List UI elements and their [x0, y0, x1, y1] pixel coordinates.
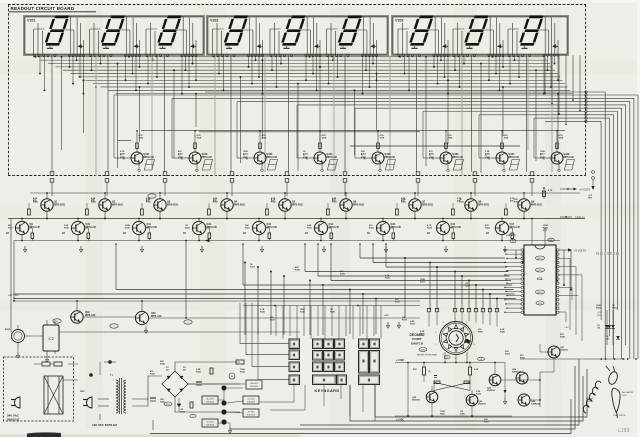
svg-text:2N2369: 2N2369 — [412, 400, 420, 402]
decimal point arrow digit 8 — [497, 44, 503, 48]
svg-text:WHT: WHT — [80, 391, 85, 393]
svg-text:4.7K: 4.7K — [548, 189, 553, 192]
svg-text:-12 VDC: -12 VDC — [247, 412, 255, 414]
voltage source box -12 — [243, 409, 259, 417]
svg-text:47K: 47K — [361, 156, 365, 159]
segment indicator glyph at Q103 — [267, 160, 277, 171]
transistor Q5 — [266, 192, 304, 219]
svg-text:CORD: CORD — [586, 401, 592, 403]
test point oval 7 — [110, 324, 118, 328]
wire bottom nest — [150, 359, 587, 434]
segment indicator glyph at Q101 — [144, 160, 154, 171]
svg-text:BR3000B: BR3000B — [596, 251, 620, 256]
misc ovals — [148, 194, 192, 324]
IC1 integrated circuit — [521, 245, 559, 315]
transistor Q14 — [305, 219, 340, 242]
svg-text:SW1: SW1 — [421, 349, 427, 351]
diodes on right verticals — [597, 325, 620, 340]
svg-text:B101: B101 — [5, 329, 11, 331]
ground symbol under Q13 — [260, 246, 263, 252]
decimal point switch label — [409, 333, 437, 357]
transformer T1 — [98, 373, 126, 414]
transistor Q2 — [86, 192, 124, 219]
svg-text:MPS-6521: MPS-6521 — [353, 203, 365, 206]
flip-flop resistors — [413, 362, 479, 384]
diode column right — [597, 310, 615, 345]
transistor Q20 — [135, 300, 162, 325]
svg-text:READOUT CIRCUIT BOARD: READOUT CIRCUIT BOARD — [11, 6, 75, 11]
svg-text:2N2369: 2N2369 — [478, 404, 486, 406]
7-segment display V101 digit 2 — [100, 16, 126, 46]
common cathode bar digit 1 — [47, 46, 53, 48]
svg-text:150K: 150K — [262, 137, 267, 139]
wire long verticals digit commons — [52, 55, 527, 172]
7-segment display V101 digit 1 — [44, 16, 70, 46]
svg-text:+12 VDC: +12 VDC — [506, 234, 516, 237]
transistor Q16 — [427, 219, 462, 242]
svg-text:1K: 1K — [62, 232, 65, 235]
AC plug 240V — [11, 397, 20, 408]
IC1 right pin L wires — [559, 258, 582, 341]
flip-flop cross wires — [434, 382, 470, 391]
svg-text:1K: 1K — [486, 232, 489, 235]
switch bottom wires — [444, 352, 468, 363]
svg-text:47K: 47K — [485, 156, 489, 159]
IC1 right wires and +5V — [559, 248, 586, 329]
svg-text:MPS-U45: MPS-U45 — [86, 226, 97, 229]
transistor Q25 — [512, 369, 528, 384]
wire mid horizontals — [118, 130, 565, 146]
wire rail y193 — [30, 192, 580, 194]
common cathode bar digit 8 — [467, 46, 473, 48]
svg-text:+3 VOLTS: +3 VOLTS — [579, 189, 590, 192]
KEYBOARD label — [315, 389, 340, 393]
rail y359 right — [555, 358, 637, 360]
alligator clip — [606, 366, 619, 385]
svg-text:+12 VDC: +12 VDC — [247, 399, 255, 401]
svg-text:SOURCE: SOURCE — [206, 402, 215, 404]
transistor Q24 — [487, 362, 501, 393]
svg-text:47K: 47K — [413, 368, 417, 371]
display group box V102 — [207, 16, 388, 55]
svg-text:MPS-A13: MPS-A13 — [151, 315, 162, 318]
board edge connector squares — [50, 172, 534, 196]
common cathode bar digit 3 — [160, 46, 166, 48]
7-segment display V101 digit 3 — [156, 16, 182, 46]
svg-text:IC2: IC2 — [49, 337, 54, 341]
svg-text:+12V: +12V — [384, 315, 389, 317]
svg-text:1K: 1K — [243, 232, 246, 235]
svg-text:+1 VDC: +1 VDC — [396, 360, 404, 362]
svg-text:VDC: VDC — [597, 315, 602, 317]
svg-text:4511: 4511 — [538, 270, 543, 272]
AC plug 120V — [80, 391, 92, 408]
wire pin drops to bus band — [35, 55, 559, 94]
resistor feed near Q9 — [543, 187, 553, 199]
svg-text:MPS-U45: MPS-U45 — [267, 226, 278, 229]
wire bus verticals middle — [244, 250, 572, 335]
svg-text:47K: 47K — [243, 156, 247, 159]
svg-text:MPS-6521: MPS-6521 — [112, 203, 124, 206]
display driver transistor Q105 — [361, 130, 396, 172]
svg-text:CLIP: CLIP — [622, 395, 627, 397]
svg-text:V103: V103 — [395, 19, 403, 23]
svg-text:MPS-U45: MPS-U45 — [207, 226, 218, 229]
ground symbol under Q11 — [140, 246, 143, 252]
page edge blob — [27, 432, 61, 437]
bridge rectifier — [162, 367, 188, 397]
display driver transistor Q104 — [303, 130, 338, 172]
segment indicator glyph at Q107 — [509, 160, 519, 171]
wires squares to switch — [429, 312, 497, 327]
svg-text:MPS-6521: MPS-6521 — [478, 203, 490, 206]
wire rail y301 — [14, 300, 420, 302]
transformer T2 with cross — [44, 376, 63, 414]
connector pins along V102 bottom edge — [212, 54, 377, 56]
svg-text:+160 VDC: +160 VDC — [250, 383, 259, 385]
svg-text:150K: 150K — [380, 137, 385, 139]
svg-text:DISPLAY: DISPLAY — [575, 217, 585, 220]
display driver transistor Q101 — [120, 130, 155, 172]
probe labels — [586, 391, 634, 417]
transistor Q9 — [505, 192, 543, 219]
display driver transistor Q107 — [485, 130, 520, 172]
heavy gray verticals scan — [96, 56, 552, 177]
transistor Q12 — [183, 219, 218, 242]
voltage source box +12 — [243, 396, 259, 404]
svg-text:MPS-U32: MPS-U32 — [327, 156, 338, 159]
decimal point arrow digit 6 — [371, 44, 377, 48]
segment indicator glyph at Q106 — [453, 160, 463, 171]
svg-text:4017: 4017 — [538, 292, 544, 294]
wire right verticals into wrap lines — [544, 55, 581, 125]
decimal point arrow digit 3 — [190, 44, 196, 48]
svg-text:47K: 47K — [540, 156, 544, 159]
connector pins along V101 bottom edge — [33, 54, 197, 56]
svg-text:47K: 47K — [303, 156, 307, 159]
svg-text:+12 VDC: +12 VDC — [206, 422, 214, 424]
scattered value labels — [8, 150, 618, 424]
7-segment display V103 digit 7 — [408, 16, 434, 46]
ground symbol under Q9 — [23, 246, 26, 252]
wire medium drops through fan — [61, 56, 559, 173]
readout circuit board title — [9, 6, 96, 12]
fuse — [89, 360, 116, 377]
svg-text:SWITCH: SWITCH — [411, 341, 424, 345]
svg-text:47K: 47K — [429, 156, 433, 159]
test point oval 12 — [53, 319, 61, 323]
wire vertical x186 — [185, 240, 187, 319]
svg-text:191: 191 — [597, 327, 600, 329]
voltage source box +8.2 — [202, 396, 218, 404]
labels above IC1 — [506, 218, 554, 245]
IC1 internal ovals — [536, 256, 545, 305]
svg-text:47K: 47K — [120, 156, 124, 159]
ground symbol under Q10 — [79, 246, 82, 252]
ground symbol under Q17 — [503, 246, 506, 252]
switch connector squares — [427, 308, 498, 311]
transistor Q17 — [486, 219, 521, 242]
common cathode bar digit 5 — [284, 46, 290, 48]
transistor Q6 — [327, 192, 365, 219]
flip-flop right wires — [444, 344, 554, 407]
svg-text:MPS-6521: MPS-6521 — [54, 203, 66, 206]
svg-text:150K: 150K — [448, 137, 453, 139]
svg-text:MPS-U32: MPS-U32 — [202, 156, 213, 159]
svg-text:MPS-A13: MPS-A13 — [85, 314, 96, 317]
ground under Q20 — [144, 327, 147, 333]
+1VDC rail bottom — [395, 416, 512, 422]
IC2 — [43, 320, 59, 362]
display group box V101 — [24, 16, 204, 55]
display group box V103 — [392, 16, 568, 55]
decimal point arrow digit 1 — [78, 44, 84, 48]
voltage source box +12b — [202, 419, 218, 427]
svg-text:MPS-U32: MPS-U32 — [385, 156, 396, 159]
segment indicator glyph at Q105 — [385, 160, 395, 171]
display driver transistor Q103 — [243, 130, 278, 172]
svg-text:150K: 150K — [139, 137, 144, 139]
svg-text:V102: V102 — [210, 19, 218, 23]
transistor Q27 — [548, 346, 568, 358]
7-segment display V102 digit 4 — [223, 16, 249, 46]
wire verticals inside display boxes — [34, 17, 559, 56]
keyboard wires — [240, 303, 420, 421]
wire bus band under displays — [33, 57, 573, 94]
transistor Q15 — [367, 219, 402, 242]
svg-text:1K: 1K — [183, 232, 186, 235]
transistor Q11 — [123, 219, 158, 242]
faint stamp BR3000B — [596, 251, 620, 256]
svg-text:120 VAC 60/50 HZ: 120 VAC 60/50 HZ — [92, 423, 117, 427]
transistor Q13 — [243, 219, 278, 242]
common cathode bar digit 7 — [412, 46, 418, 48]
resistors above transformer — [34, 362, 62, 366]
svg-text:47K: 47K — [178, 156, 182, 159]
common cathode bar digit 6 — [340, 46, 346, 48]
svg-text:150K: 150K — [504, 137, 509, 139]
wire left verticals — [11, 219, 14, 333]
svg-text:IC1: IC1 — [537, 277, 543, 281]
decimal point arrow digit 5 — [314, 44, 320, 48]
svg-text:1K: 1K — [427, 232, 430, 235]
segment indicator glyph at Q104 — [327, 160, 337, 171]
svg-text:ALLIGATOR: ALLIGATOR — [622, 391, 634, 394]
common cathode bar digit 4 — [226, 46, 232, 48]
decimal point arrow digit 7 — [442, 44, 448, 48]
svg-text:L193: L193 — [618, 428, 629, 434]
svg-text:MPS-U45: MPS-U45 — [30, 226, 41, 229]
display driver transistor Q106 — [429, 130, 464, 172]
svg-text:MPS-U32: MPS-U32 — [564, 156, 575, 159]
svg-text:MPS-6521: MPS-6521 — [422, 203, 434, 206]
lamp B101 — [5, 325, 25, 347]
svg-text:MPS-6521: MPS-6521 — [167, 203, 179, 206]
120 VAC label — [92, 423, 117, 427]
voltage source box +160 — [246, 380, 262, 389]
handwritten mark — [618, 428, 629, 434]
wire driver base feed lines wrapping right — [114, 91, 638, 359]
common cathode bar digit 9 — [522, 46, 528, 48]
transistor Q3 — [141, 192, 179, 219]
rail y359 labels — [520, 358, 555, 360]
svg-text:+8.2 VDC: +8.2 VDC — [206, 399, 215, 401]
display driver transistor Q108 — [540, 130, 575, 172]
transistor Q1 — [28, 192, 66, 219]
transistor Q10 — [62, 219, 97, 242]
svg-text:+17 VDC: +17 VDC — [8, 293, 19, 297]
probe body — [612, 388, 620, 418]
svg-text:SOURCE: SOURCE — [247, 402, 256, 404]
ground symbol under Q15 — [384, 246, 387, 252]
svg-text:+1 VDC: +1 VDC — [396, 420, 404, 422]
7-segment display V102 digit 6 — [337, 16, 363, 46]
transistor Q4 — [208, 192, 246, 219]
svg-text:MPS-U45: MPS-U45 — [510, 226, 521, 229]
bottom-left extra wires — [16, 347, 100, 399]
transistor Q9 — [6, 219, 41, 242]
svg-text:MPS-6521: MPS-6521 — [531, 203, 543, 206]
svg-text:1K: 1K — [6, 232, 9, 235]
svg-text:1K: 1K — [305, 232, 308, 235]
decimal point arrow digit 4 — [257, 44, 263, 48]
common cathode bar digit 2 — [103, 46, 109, 48]
svg-text:1K: 1K — [367, 232, 370, 235]
segment indicator glyph at Q102 — [202, 160, 212, 171]
display driver transistor Q102 — [178, 130, 213, 172]
svg-text:MPS-6521: MPS-6521 — [292, 203, 304, 206]
+1VDC rail top — [395, 360, 505, 363]
ground symbol under Q12 — [200, 246, 203, 252]
svg-text:150K: 150K — [322, 137, 327, 139]
power wires — [100, 362, 240, 430]
7-segment display V103 digit 9 — [518, 16, 544, 46]
svg-text:SOURCE: SOURCE — [250, 386, 259, 388]
decimal point arrow digit 9 — [552, 44, 558, 48]
svg-text:MPS-6521: MPS-6521 — [234, 203, 246, 206]
transistor Q19 — [71, 300, 96, 323]
svg-text:MPS-U32: MPS-U32 — [509, 156, 520, 159]
svg-text:50/60 HZ: 50/60 HZ — [7, 418, 20, 422]
svg-text:MPS-U32: MPS-U32 — [267, 156, 278, 159]
IC1 left pin wires — [504, 249, 521, 313]
+17 VDC label — [8, 293, 19, 302]
svg-text:7.5V: 7.5V — [564, 327, 569, 329]
segment indicator glyph at Q108 — [564, 160, 574, 171]
rail arrow — [205, 239, 210, 243]
svg-text:MPS-U45: MPS-U45 — [147, 226, 158, 229]
power extra components — [177, 360, 246, 433]
svg-text:SOURCE: SOURCE — [206, 425, 215, 427]
svg-text:150K: 150K — [559, 137, 564, 139]
flip-flop left vertical — [407, 362, 409, 417]
connector pins along V103 bottom edge — [398, 54, 559, 56]
ground symbol under Q16 — [444, 246, 447, 252]
svg-text:.05: .05 — [428, 371, 431, 373]
keyboard block — [289, 339, 380, 385]
svg-text:MPS-U45: MPS-U45 — [451, 226, 462, 229]
right mid labels — [560, 171, 595, 220]
240 VAC dashed box — [4, 357, 74, 421]
svg-text:MPS-U45: MPS-U45 — [391, 226, 402, 229]
svg-text:KEYBOARD: KEYBOARD — [315, 389, 340, 393]
svg-text:SOURCE: SOURCE — [247, 415, 256, 417]
regulator transistors dots — [221, 385, 226, 424]
svg-text:V101: V101 — [27, 19, 35, 23]
7-segment display V103 digit 8 — [463, 16, 489, 46]
ground symbol under Q14 — [322, 246, 325, 252]
svg-text:191: 191 — [606, 338, 609, 340]
240 VAC label — [7, 414, 20, 422]
svg-text:2N2369: 2N2369 — [487, 390, 495, 392]
wire bus bundle middle — [14, 243, 516, 298]
filter capacitors — [150, 382, 202, 401]
svg-text:MPS-U32: MPS-U32 — [453, 156, 464, 159]
decimal point rotary switch — [435, 318, 475, 360]
svg-text:4.7K: 4.7K — [474, 368, 479, 371]
svg-text:4017: 4017 — [538, 258, 544, 260]
svg-text:+5 VOLTS: +5 VOLTS — [574, 249, 586, 253]
transistor Q7 — [396, 192, 434, 219]
wire rail y218 — [8, 218, 585, 220]
transistor Q26 — [518, 394, 541, 406]
svg-text:MPS-U45: MPS-U45 — [329, 226, 340, 229]
readout circuit board dashed outline — [8, 5, 586, 177]
svg-text:VIEWED FROM REAR: VIEWED FROM REAR — [417, 354, 438, 357]
wire rail y240 — [14, 240, 560, 242]
svg-text:X29A829: X29A829 — [512, 371, 522, 374]
wire horizontal stubs inside display boxes — [34, 17, 549, 31]
svg-text:2N2369: 2N2369 — [560, 350, 568, 352]
zener diodes ovals — [164, 373, 235, 418]
svg-text:VDC: VDC — [588, 197, 593, 199]
transistor Q8 — [452, 192, 490, 219]
7-segment display V102 digit 5 — [280, 16, 306, 46]
svg-text:MPS-U32: MPS-U32 — [144, 156, 155, 159]
transistor Q22 — [412, 386, 438, 417]
svg-text:X29A829: X29A829 — [531, 403, 541, 406]
svg-text:1K: 1K — [123, 232, 126, 235]
svg-text:TEST PROD: TEST PROD — [613, 415, 626, 417]
transistor Q23 — [466, 390, 486, 417]
svg-text:150K: 150K — [197, 137, 202, 139]
decimal point arrow digit 2 — [134, 44, 140, 48]
test probe coiled cord — [583, 381, 601, 413]
wire IC2 area — [25, 317, 421, 336]
svg-text:COILED: COILED — [586, 398, 594, 400]
